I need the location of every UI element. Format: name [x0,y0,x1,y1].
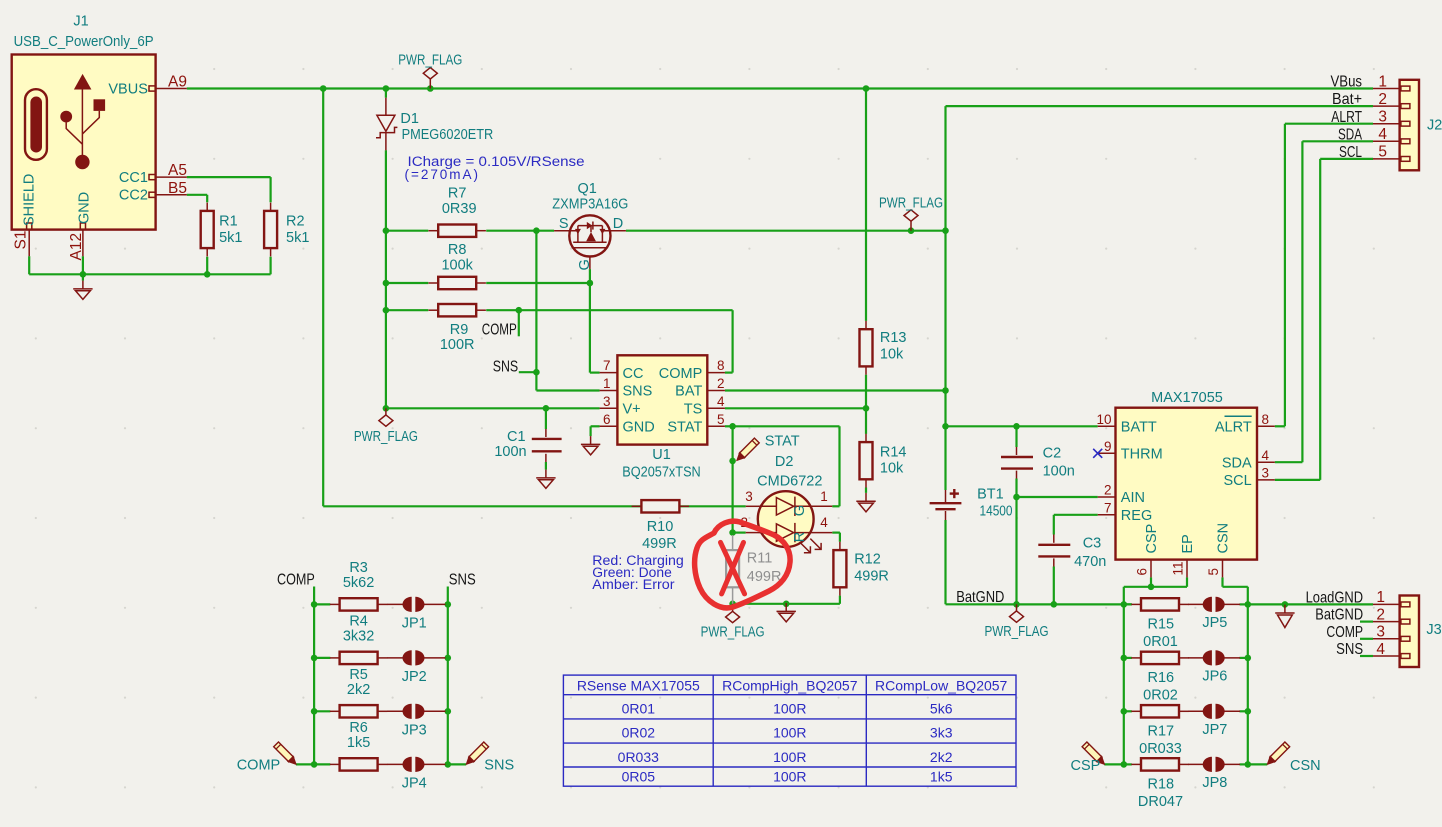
wire left rail block left [313,604,315,764]
svg-text:R7: R7 [448,185,467,201]
resistor R2 [270,203,272,211]
svg-text:COMP: COMP [237,757,281,773]
svg-text:100R: 100R [773,749,806,765]
svg-text:0R02: 0R02 [1143,687,1178,703]
wire R10 row right [679,505,745,507]
wire GND pin stub [82,256,84,280]
svg-text:STAT: STAT [667,420,702,436]
wire STAT stub [725,425,733,427]
svg-text:2: 2 [717,376,725,391]
U1 pin 8 COMP [707,372,725,374]
wire CC to U1 pin7 [590,372,600,374]
svg-text:3k3: 3k3 [930,725,953,741]
MAX17055 pin 8 ALRT [1257,425,1275,427]
svg-text:R12: R12 [854,552,881,568]
svg-text:100R: 100R [773,725,806,741]
wire BT1 bottom [944,520,946,604]
wire gate vertical [589,269,591,283]
wire block-left row3 a [314,710,330,712]
svg-text:2k2: 2k2 [347,682,370,698]
wire COMP label stub [518,310,520,336]
svg-text:G: G [577,259,593,270]
svg-text:8: 8 [1262,412,1270,427]
svg-text:2: 2 [1376,606,1385,623]
D2 pin 3 [746,505,759,507]
svg-text:PMEG6020ETR: PMEG6020ETR [402,127,494,143]
svg-text:R17: R17 [1147,723,1174,739]
svg-text:PWR_FLAG: PWR_FLAG [985,624,1049,640]
svg-text:7: 7 [603,358,611,373]
svg-text:C3: C3 [1083,536,1102,552]
wire R8 right to gate [486,282,590,284]
wire R10 row left [323,505,641,507]
svg-text:G: G [792,505,808,516]
svg-text:100R: 100R [773,768,806,784]
svg-text:A5: A5 [168,162,187,179]
svg-text:2: 2 [1378,91,1387,108]
svg-text:R6: R6 [349,720,368,736]
svg-text:D1: D1 [400,111,419,127]
power flag PWR_FLAG mid-top [904,210,918,231]
svg-text:A12: A12 [68,233,85,261]
svg-text:ALRT: ALRT [1215,420,1252,436]
svg-text:D2: D2 [775,454,794,470]
J1 USB trident icon [60,74,105,169]
svg-text:1k5: 1k5 [930,768,953,784]
svg-text:3: 3 [745,489,753,504]
svg-text:SCL: SCL [1339,144,1362,161]
svg-text:USB_C_PowerOnly_6P: USB_C_PowerOnly_6P [14,34,154,50]
wire block-right row3 b [1240,710,1248,712]
wire J1 CC1 wire [187,176,271,178]
svg-text:JP3: JP3 [402,722,427,738]
svg-text:0R033: 0R033 [1139,741,1182,757]
svg-text:3k32: 3k32 [343,629,374,645]
svg-text:BatGND: BatGND [956,589,1004,606]
svg-text:SCL: SCL [1223,473,1251,489]
svg-text:SNS: SNS [493,359,519,376]
svg-text:RCompHigh_BQ2057: RCompHigh_BQ2057 [722,678,858,694]
svg-text:R3: R3 [349,560,368,576]
J3 pin 2 BatGND [1373,621,1400,623]
svg-text:9: 9 [1104,439,1112,454]
svg-text:PWR_FLAG: PWR_FLAG [398,53,462,69]
power flag PWR_FLAG top-left [423,68,437,89]
no-connect X on THRM [1093,449,1102,458]
svg-text:SNS: SNS [623,384,653,400]
J2 pin 1 VBus [1373,88,1400,90]
MAX17055 pin 11 EP [1186,560,1188,578]
resistor R14 [865,434,867,442]
resistor R5 [330,710,340,712]
wire SCL stub [1275,479,1320,481]
J1 pin CC1 A5 [156,176,187,178]
svg-text:RSense MAX17055: RSense MAX17055 [577,678,700,694]
svg-text:BQ2057xTSN: BQ2057xTSN [622,464,701,480]
wire C1 top stub [545,408,547,429]
ground C1 GND [536,470,555,489]
wire C2 top stub [1015,426,1017,447]
wire SNS vertical [535,231,537,391]
svg-text:AIN: AIN [1121,490,1145,506]
jumper JP1 [387,603,405,605]
IC MAX17055 [1116,408,1258,560]
svg-text:ZXMP3A16G: ZXMP3A16G [552,196,628,212]
svg-text:TS: TS [684,402,703,418]
svg-text:PWR_FLAG: PWR_FLAG [879,196,943,212]
svg-text:0R033: 0R033 [618,749,659,765]
svg-text:CSN: CSN [1216,523,1232,554]
wire J1 CC1 down [270,177,272,202]
resistor R12 [839,542,841,550]
svg-text:EP: EP [1180,534,1196,553]
D2 pin 2 [746,532,759,534]
svg-text:R15: R15 [1147,616,1174,632]
wire LoadGND row [1248,603,1373,605]
jumper JP2 [387,657,405,659]
wire left rail block right [1123,587,1125,765]
svg-text:6: 6 [1135,568,1150,576]
svg-text:3: 3 [1378,109,1387,126]
resistor R15 [1131,603,1141,605]
svg-text:THRM: THRM [1121,447,1163,463]
svg-text:CSP: CSP [1070,758,1100,774]
wire R14 bottom [865,488,867,493]
D2 green diode [759,497,814,516]
svg-text:Q1: Q1 [578,181,597,197]
svg-text:6: 6 [603,412,611,427]
wire right rail block left [447,604,449,764]
capacitor C2 100n [1016,447,1018,455]
ground U1 GND [581,436,600,455]
wire block-left row4 a [314,763,330,765]
wire block-right row4 b [1240,763,1248,765]
svg-text:R10: R10 [647,519,674,535]
wire CSP pencil wire [1104,763,1124,765]
wire R7 left [386,230,428,232]
J3 pin 1 LoadGND [1373,603,1400,605]
wire BatGND row [946,603,1132,605]
wire R11 bottom row [733,603,840,605]
resistor R13 [865,321,867,329]
J1 pin CC2 B5 [156,194,187,196]
svg-text:D: D [613,216,623,232]
svg-text:499R: 499R [747,569,782,585]
svg-text:5k1: 5k1 [286,230,309,246]
power flag PWR_FLAG V+ left [379,408,393,426]
svg-text:CC: CC [623,366,644,382]
svg-text:R9: R9 [450,322,469,338]
IC U1 BQ2057xTSN [617,355,707,444]
label CSN (pencil) [1268,742,1290,764]
D2 pin 1 [813,505,832,507]
svg-text:10k: 10k [880,460,904,476]
svg-text:U1: U1 [652,447,671,463]
wire ALRT vertical [1284,124,1286,427]
wire R2 bottom stub [270,257,272,275]
ground R14 GND [856,493,875,512]
svg-text:SDA: SDA [1338,126,1362,143]
resistor R18 [1131,763,1141,765]
svg-text:COMP: COMP [659,366,703,382]
U1 pin 5 STAT [707,425,725,427]
wire CSN link [1223,586,1248,588]
ground LoadGND GND [1275,605,1294,628]
wire SDA stub [1275,461,1303,463]
svg-text:100n: 100n [494,444,526,460]
svg-text:COMP: COMP [482,322,517,339]
battery BT1 14500 [945,490,947,502]
MAX17055 pin 6 CSP [1150,560,1152,578]
J1 pin SHIELD S1 [28,230,30,257]
connector J3 [1400,596,1419,668]
svg-text:4: 4 [1262,448,1270,463]
jumper JP8 [1188,763,1205,765]
wire CSP stub [1150,577,1152,586]
wire R8 left [386,282,428,284]
wire right rail block right [1247,587,1249,765]
U1 pin 2 BAT [707,390,725,392]
resistor R8 [429,282,439,284]
wire block-right row3 a [1124,710,1132,712]
svg-text:BATT: BATT [1121,420,1157,436]
svg-text:7: 7 [1104,500,1112,515]
svg-text:4: 4 [1376,641,1385,658]
svg-text:RCompLow_BQ2057: RCompLow_BQ2057 [875,678,1008,694]
power flag PWR_FLAG under R11 [726,604,740,623]
wire C2 bottom vertical [1015,479,1017,605]
svg-text:JP4: JP4 [402,775,427,791]
wire VBUS vertical to R10 [322,89,324,507]
wire J3 stub BatGND [1360,620,1373,622]
wire COMP pin8 vertical [731,310,733,372]
wire block-right row2 a [1124,657,1132,659]
U1 pin 6 GND [600,425,618,427]
svg-text:S1: S1 [12,231,29,250]
svg-text:100n: 100n [1043,464,1075,480]
capacitor C3 470n [1053,535,1055,543]
resistor R10 [632,505,642,507]
wire block-left row4 b [445,763,448,765]
svg-text:BT1: BT1 [977,487,1004,503]
wire BATT row [946,425,1098,427]
label COMP (pencil) [274,742,296,764]
wire STAT down to D2 pin1 [838,426,840,506]
svg-text:COMP: COMP [1326,624,1363,641]
wire SDA top [1302,140,1373,142]
svg-text:5k62: 5k62 [343,575,374,591]
jumper JP7 [1188,710,1205,712]
wire STAT right [733,425,840,427]
svg-text:STAT: STAT [765,434,800,450]
svg-text:CC1: CC1 [119,170,148,186]
resistor R1 [206,203,208,211]
svg-text:JP5: JP5 [1202,615,1227,631]
ground J1 GND [73,281,92,300]
wire D1 top stub [385,89,387,98]
wire D2 pin4 stub [832,531,840,533]
wire R1 bottom stub [206,257,208,275]
svg-text:0R01: 0R01 [622,701,656,717]
wire COMP top stub block left [313,587,315,605]
wire C1 bottom stub [545,462,547,470]
svg-text:Bat+: Bat+ [1332,91,1362,108]
wire J3 stub SNS [1360,655,1373,657]
svg-text:PWR_FLAG: PWR_FLAG [354,429,418,445]
svg-text:Amber: Error: Amber: Error [592,577,675,592]
wire left rail R7-R9 to V+ [385,231,387,409]
svg-text:SHIELD: SHIELD [22,174,38,226]
svg-text:R4: R4 [349,613,368,629]
svg-text:ALRT: ALRT [1331,109,1362,126]
wire block-left row1 b [445,603,448,605]
wire R7 right to Q1 [486,230,554,232]
svg-text:DR047: DR047 [1138,794,1183,810]
svg-text:1: 1 [820,489,828,504]
label SNS (pencil) [466,742,488,764]
MAX17055 pin 4 SDA [1257,461,1275,463]
table RSense selection [563,675,1016,786]
wire Bat+ rail vertical [944,106,946,490]
svg-text:5: 5 [1378,144,1387,161]
svg-text:A9: A9 [168,74,187,91]
wire Bat+ to J2 [946,105,1374,107]
U1 pin 4 TS [707,407,725,409]
wire REG row [1054,514,1098,516]
svg-text:JP2: JP2 [402,669,427,685]
wire J1 CC2 down [206,195,208,203]
svg-text:5: 5 [1206,568,1221,576]
resistor R6 [330,763,340,765]
svg-text:V+: V+ [623,402,641,418]
svg-text:0R05: 0R05 [622,768,656,784]
svg-text:R14: R14 [880,444,907,460]
MAX17055 pin 10 BATT [1098,425,1116,427]
wire CC vertical [589,283,591,373]
D2 red diode [759,523,814,542]
wire SNS pencil wire [448,763,466,765]
U1 pin 1 SNS [600,390,618,392]
wire R12 top stub [839,533,841,542]
wire SHIELD stub [28,256,30,274]
wire STAT vertical [731,426,733,535]
diode D1 PMEG6020ETR [385,98,387,116]
svg-text:0R01: 0R01 [1143,634,1178,650]
svg-text:470n: 470n [1074,554,1106,570]
svg-text:C1: C1 [507,429,526,445]
resistor R17 [1131,710,1141,712]
wire SNS to U1 pin1 [536,389,599,391]
svg-text:JP8: JP8 [1202,775,1227,791]
svg-text:0R02: 0R02 [622,725,656,741]
wire U1 gnd horiz [591,425,600,427]
svg-text:4: 4 [820,515,828,530]
svg-text:11: 11 [1171,561,1186,575]
svg-text:R11: R11 [747,550,773,566]
J1 pin VBUS A9 [156,88,187,90]
svg-text:(=270mA): (=270mA) [405,167,479,182]
svg-text:100k: 100k [441,258,473,274]
ground D2 GND [777,603,796,622]
svg-text:1: 1 [1376,589,1385,606]
wire BAT row [725,389,946,391]
svg-text:100R: 100R [773,701,806,717]
wire R13 top [865,89,867,321]
connector J1 USB_C_PowerOnly_6P [12,55,156,230]
wire CSN stub [1221,577,1223,586]
svg-text:BAT: BAT [675,384,702,400]
wire block-right row4 a [1124,763,1132,765]
svg-text:R18: R18 [1147,776,1174,792]
wire block-right row1 a [1124,603,1132,605]
label STAT [737,438,759,460]
svg-text:499R: 499R [642,536,677,552]
svg-text:R5: R5 [349,667,368,683]
transistor Q1 ZXMP3A16G [554,230,578,232]
MAX17055 pin 3 SCL [1257,479,1275,481]
wire D2 pin1 stub [832,505,839,507]
svg-text:10k: 10k [880,347,904,363]
wire ALRT top [1285,123,1373,125]
J2 pin 5 SCL [1373,158,1400,160]
svg-text:PWR_FLAG: PWR_FLAG [701,625,765,641]
svg-text:5k1: 5k1 [219,230,242,246]
svg-text:10: 10 [1096,412,1111,427]
jumper JP5 [1188,603,1205,605]
wire block-left row2 a [314,657,330,659]
jumper JP6 [1188,657,1205,659]
svg-text:R13: R13 [880,330,907,346]
svg-text:1k5: 1k5 [347,735,370,751]
svg-text:J3: J3 [1426,622,1441,638]
svg-text:BatGND: BatGND [1315,607,1363,624]
resistor R3 [330,603,340,605]
resistor R7 [429,230,439,232]
wire D2 pin2 stub [733,531,746,533]
svg-text:CC2: CC2 [119,188,148,204]
svg-text:SNS: SNS [449,572,476,589]
wire VBUS top rail [187,87,1373,89]
svg-text:VBus: VBus [1331,74,1363,91]
svg-text:2: 2 [1104,483,1112,498]
svg-text:0R39: 0R39 [442,201,477,217]
svg-text:CMD6722: CMD6722 [757,473,822,489]
svg-text:4: 4 [717,394,725,409]
svg-text:SDA: SDA [1222,455,1252,471]
svg-text:SNS: SNS [1336,641,1363,658]
wire U1 gnd vert [589,426,591,436]
wire R14 top [865,408,867,434]
resistor R9 [429,309,439,311]
jumper JP4 [387,763,405,765]
svg-text:8: 8 [717,358,725,373]
red hand-drawn annotation circling R11 [695,521,790,608]
D2 pin 4 [813,532,832,534]
svg-text:R1: R1 [219,214,238,230]
svg-text:3: 3 [603,394,611,409]
J3 pin 3 COMP [1373,638,1400,640]
wire EP stub [1186,577,1188,586]
svg-text:1: 1 [1378,73,1387,90]
svg-text:499R: 499R [854,569,889,585]
svg-text:3: 3 [1262,466,1270,481]
wire SNS label stub [519,371,537,373]
MAX17055 pin 7 REG [1098,514,1116,516]
resistor R4 [330,657,340,659]
svg-text:B5: B5 [168,180,187,197]
MAX17055 pin 5 CSN [1222,560,1224,578]
wire COMP pin8 horiz [725,372,733,374]
